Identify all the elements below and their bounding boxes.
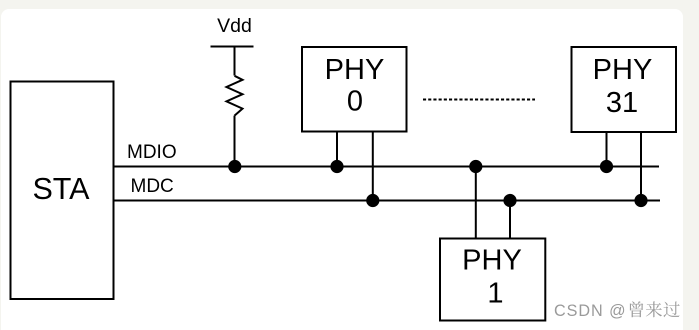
wire resistor to MDIO [234, 116, 236, 167]
svg-text:PHY: PHY [462, 245, 522, 277]
svg-text:STA: STA [32, 172, 90, 206]
wire PHY1 pin MDIO [475, 167, 477, 239]
svg-text:PHY: PHY [325, 54, 385, 86]
junction dot PHY1/MDIO [469, 160, 482, 173]
svg-text:1: 1 [487, 278, 503, 310]
PHY 1 box U4 [440, 239, 545, 321]
wire Vdd rail to resistor [234, 47, 236, 76]
svg-text:MDC: MDC [131, 176, 174, 197]
resistor R1 pull-up [227, 76, 243, 116]
svg-text:Vdd: Vdd [217, 15, 252, 37]
wire PHY0 pin MDIO [336, 132, 338, 167]
PHY 31 box U3 [572, 47, 677, 132]
junction dot resistor/MDIO [228, 160, 241, 173]
STA box U1 [11, 82, 114, 300]
wire PHY31 pin MDIO [606, 132, 608, 167]
PHY 0 box U2 [302, 47, 407, 132]
svg-text:0: 0 [347, 86, 363, 118]
svg-text:MDIO: MDIO [127, 142, 177, 163]
junction dot PHY31/MDC [634, 194, 647, 207]
junction dot PHY1/MDC [503, 194, 516, 207]
wire PHY1 pin MDC [509, 201, 511, 239]
wire PHY0 pin MDC [372, 132, 374, 201]
wire MDIO bus [114, 166, 660, 168]
dotted continuation line [423, 99, 535, 101]
svg-text:PHY: PHY [593, 54, 653, 86]
wire PHY31 pin MDC [640, 132, 642, 201]
svg-text:31: 31 [606, 87, 638, 119]
wire MDC bus [114, 200, 661, 202]
junction dot PHY0/MDIO [330, 160, 343, 173]
svg-text:CSDN @: CSDN @ [554, 302, 627, 320]
junction dot PHY0/MDC [366, 194, 379, 207]
junction dot PHY31/MDIO [600, 160, 613, 173]
power rail Vdd [211, 15, 254, 47]
